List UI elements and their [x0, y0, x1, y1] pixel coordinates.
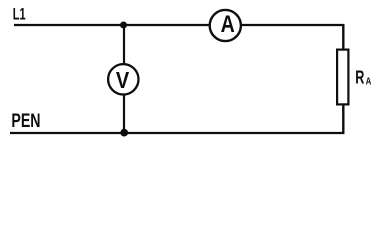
label RA value	[355, 68, 372, 88]
svg-text:PEN: PEN	[11, 109, 40, 132]
svg-text:L1: L1	[13, 5, 26, 24]
wire top line right segment	[242, 24, 344, 26]
junction bottom node	[120, 129, 128, 137]
wire resistor to bottom line	[342, 104, 344, 134]
svg-text:V: V	[116, 66, 130, 93]
wire voltmeter to bottom junction	[123, 95, 125, 133]
wire L1 top line left segment	[14, 24, 209, 26]
svg-text:R: R	[355, 68, 364, 88]
wire right corner down to resistor	[342, 24, 344, 50]
resistor RA	[337, 50, 348, 105]
voltmeter V	[108, 64, 138, 94]
wire junction to voltmeter	[123, 25, 125, 64]
ammeter A	[210, 10, 241, 41]
junction top node	[120, 22, 127, 29]
wire PEN bottom line	[10, 132, 344, 134]
svg-text:A: A	[366, 76, 372, 87]
svg-text:A: A	[221, 10, 235, 38]
